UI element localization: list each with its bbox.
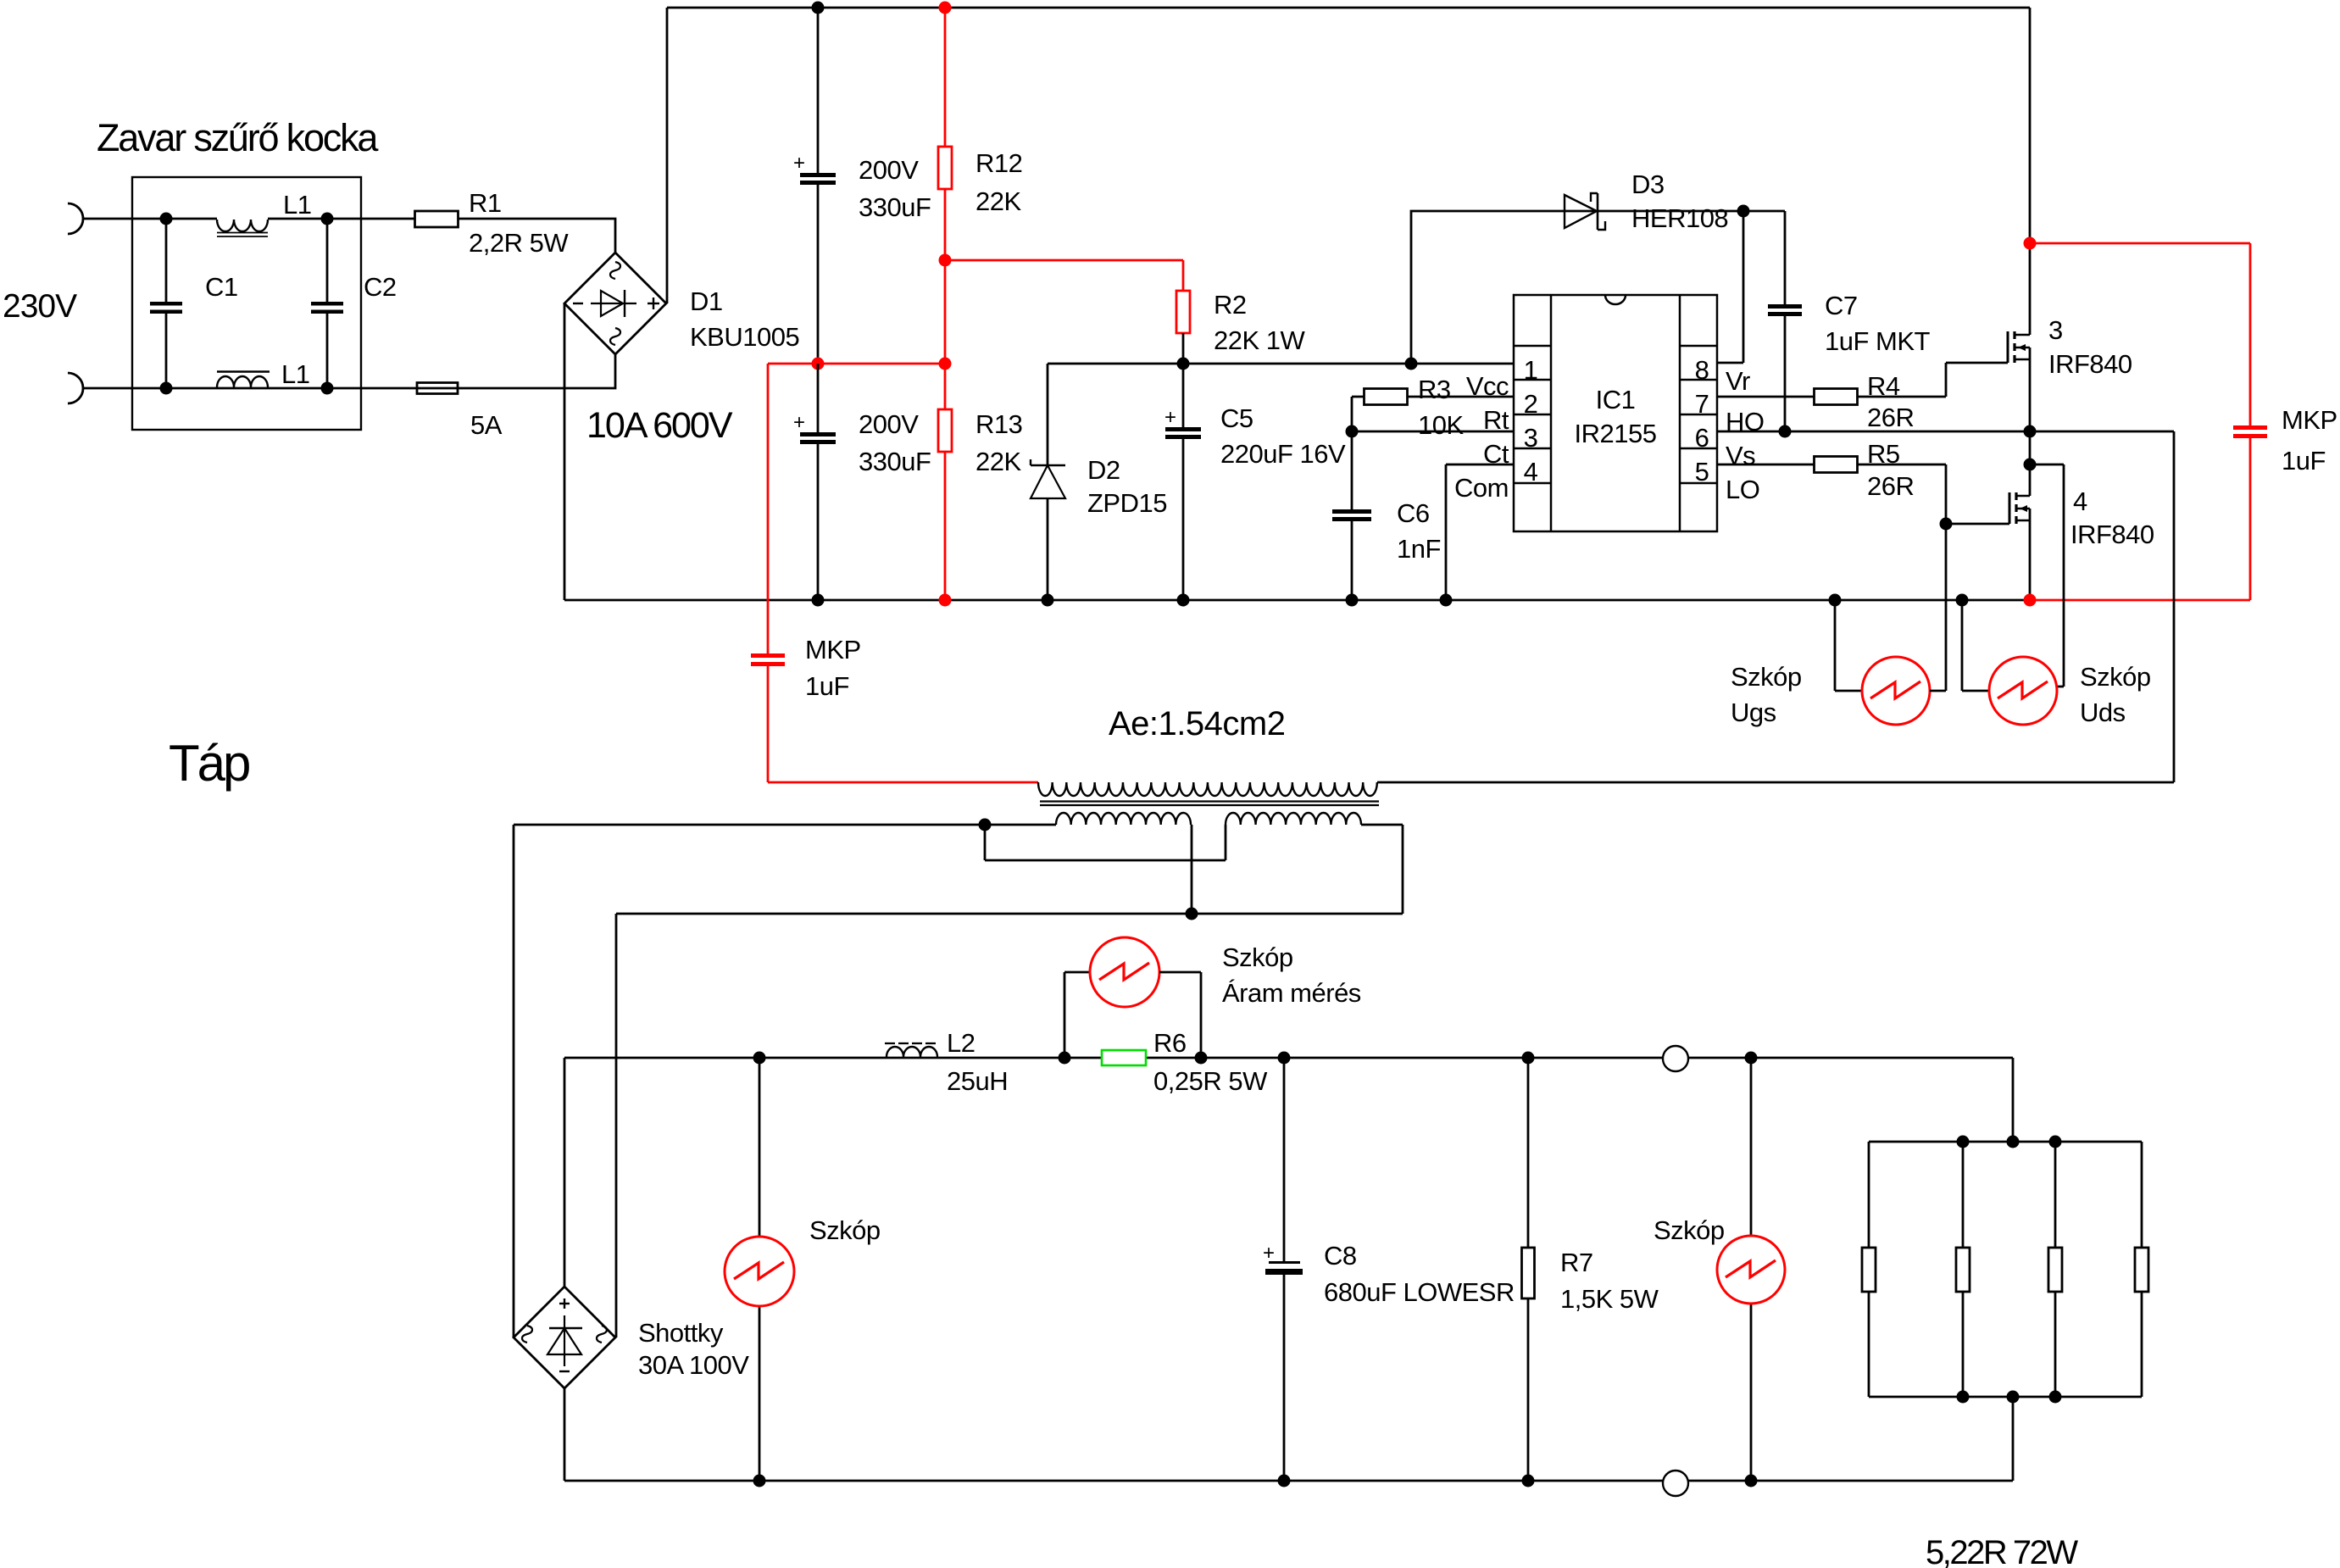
svg-text:L1: L1 [283,190,311,220]
node C8 top [1278,1052,1291,1065]
svg-text:10K: 10K [1418,410,1464,440]
svg-text:R4: R4 [1867,371,1900,401]
bridge rectifier Shottky [514,1287,615,1388]
scope probe Uds [1962,600,1989,691]
svg-text:R2: R2 [1214,290,1247,320]
node secondary left [979,819,992,831]
node R13 top [939,358,952,370]
wire pin3 Ct [1352,431,1514,433]
node load bottom 3 [2049,1391,2062,1404]
wire D3 branch [1411,211,1598,364]
node C6 ground [1346,594,1359,607]
svg-text:Shottky: Shottky [638,1318,724,1348]
svg-text:1nF: 1nF [1397,534,1441,564]
svg-text:680uF LOWESR: 680uF LOWESR [1324,1277,1515,1307]
node load bottom 1 [1957,1391,1970,1404]
svg-text:220uF 16V: 220uF 16V [1220,439,1346,469]
svg-text:330uF: 330uF [859,192,931,222]
svg-text:+: + [793,152,805,175]
wire output bottom rail [564,1397,2013,1481]
node Ugs probe ground [1829,594,1842,607]
svg-text:L1: L1 [281,359,309,389]
svg-text:26R: 26R [1867,403,1914,432]
connector output plus [1663,1046,1688,1071]
wire Shottky minus to output bottom [564,1388,566,1481]
svg-text:Vs: Vs [1726,441,1755,470]
node MOSFET4 drain tap [2024,459,2037,471]
node C8 bottom [1278,1475,1291,1487]
transformer core [1040,802,1379,806]
svg-text:1uF: 1uF [805,671,849,701]
node R2 C5 Vcc [1177,358,1190,370]
resistor R5 [1717,464,2009,524]
node center tap [1186,908,1198,920]
svg-text:1uF MKT: 1uF MKT [1825,326,1931,356]
wire load bottom bus [1869,1396,2142,1398]
svg-text:Szkóp: Szkóp [1222,942,1293,972]
svg-text:R13: R13 [975,409,1022,439]
svg-text:1uF: 1uF [2282,446,2326,475]
svg-text:C6: C6 [1397,498,1430,528]
svg-text:R3: R3 [1418,375,1451,404]
node R3 C6 [1346,425,1359,438]
resistor R1 [415,211,459,227]
scope probe current measure [1064,972,1090,1058]
transformer secondary winding left [1056,813,1191,825]
svg-text:Com: Com [1454,473,1509,503]
svg-text:D1: D1 [690,286,723,316]
node load top 2 [2007,1136,2020,1148]
capacitor 330uF bottom [817,364,820,432]
capacitor C1 [165,219,168,302]
node R7 top [1522,1052,1535,1065]
node C5 ground [1177,594,1190,607]
svg-text:Uds: Uds [2080,698,2126,727]
svg-text:1: 1 [1524,355,1538,385]
connector input bottom [68,373,83,403]
svg-text:R12: R12 [975,148,1022,178]
svg-text:25uH: 25uH [947,1066,1008,1096]
svg-text:Táp: Táp [169,735,249,792]
node MOSFET3 drain red tap [2024,237,2037,250]
svg-text:ZPD15: ZPD15 [1087,488,1167,518]
svg-text:230V: 230V [3,288,77,325]
wire output top [564,1058,2013,1142]
scope probe Ugs [1835,600,1862,691]
node R13 ground [939,594,952,607]
svg-text:C5: C5 [1220,403,1253,433]
svg-text:2,2R 5W: 2,2R 5W [469,228,569,258]
svg-text:Szkóp: Szkóp [1654,1215,1725,1245]
svg-text:D2: D2 [1087,455,1120,485]
svg-text:Zavar szűrő kocka: Zavar szűrő kocka [97,116,379,159]
capacitor MKP 1uF right [2233,425,2267,430]
svg-text:LO: LO [1726,475,1759,504]
svg-text:Szkóp: Szkóp [1731,662,1802,692]
node probe top [753,1052,766,1065]
node Uds probe ground [1956,594,1969,607]
svg-text:5A: 5A [470,410,503,440]
svg-text:C1: C1 [205,272,238,302]
svg-text:+: + [1263,1242,1275,1265]
svg-text:C2: C2 [364,272,397,302]
svg-text:3: 3 [2048,315,2063,345]
svg-text:3: 3 [1524,423,1538,453]
svg-text:KBU1005: KBU1005 [690,322,799,352]
node input bottom C2 [321,382,334,395]
wire pin4 Com [1446,464,1514,600]
connector output minus [1663,1471,1688,1496]
svg-text:Szkóp: Szkóp [809,1215,881,1245]
resistor R4 [1717,363,2008,397]
svg-text:D3: D3 [1631,170,1665,199]
node top rail R12 [939,2,952,14]
svg-text:+: + [793,411,805,434]
wire secondary interconnect [985,825,1226,860]
node probe bottom [753,1475,766,1487]
wire pin6 Vs to primary [1377,431,2174,782]
transistor Q4 IRF840 [2029,431,2032,496]
scope probe output [1750,1058,1753,1481]
svg-text:22K: 22K [975,186,1021,216]
svg-text:+: + [1164,406,1176,429]
wire center tap rail [616,914,1403,1337]
transformer secondary winding right [1226,813,1361,825]
svg-text:C7: C7 [1825,291,1858,320]
node scope output top [1745,1052,1758,1065]
svg-text:R6: R6 [1153,1028,1187,1058]
node R7 bottom [1522,1475,1535,1487]
resistor R6 [1102,1050,1146,1065]
wire secondary top left [514,825,1056,1337]
wire D1 plus to top rail [666,8,669,303]
node input top C2 [321,213,334,225]
svg-text:7: 7 [1695,389,1709,419]
svg-text:200V: 200V [859,409,919,439]
node caps midpoint [812,358,825,370]
wire ground rail [564,599,2031,602]
svg-text:IR2155: IR2155 [1575,419,1657,448]
resistor R3 [1352,397,1514,431]
capacitor C2 [326,219,329,302]
wire secondary center tap [1191,825,1193,914]
wire ground rail red segment [2031,599,2250,602]
svg-text:Vr: Vr [1726,366,1750,396]
svg-text:IRF840: IRF840 [2070,520,2154,549]
filter box [132,177,361,430]
wire R12 to R13 [944,260,947,364]
svg-text:2: 2 [1524,389,1538,419]
capacitor C6 [1351,431,1353,600]
svg-text:5,22R 72W: 5,22R 72W [1926,1534,2078,1568]
svg-text:1,5K 5W: 1,5K 5W [1560,1284,1659,1314]
resistor R12 [944,8,947,147]
node scope output bottom [1745,1475,1758,1487]
svg-text:C8: C8 [1324,1241,1357,1271]
wire red to MKP right [2030,243,2250,425]
svg-text:IC1: IC1 [1596,385,1636,414]
node load top 1 [1957,1136,1970,1148]
node load top 3 [2049,1136,2062,1148]
load resistor 3 [2054,1142,2057,1397]
load resistor 1 [1868,1142,1870,1397]
wire D3 cathode node [1598,211,1785,363]
transistor Q3 IRF840 [2007,331,2009,363]
svg-text:26R: 26R [1867,471,1914,501]
capacitor 330uF top [817,8,820,173]
node R5 gate junction [1940,518,1953,531]
svg-text:5: 5 [1695,457,1709,487]
svg-text:Szkóp: Szkóp [2080,662,2151,692]
node R6 left [1059,1052,1071,1065]
svg-text:22K 1W: 22K 1W [1214,325,1306,355]
load resistor 4 [2141,1142,2143,1397]
load resistor 2 [1962,1142,1965,1397]
node D2 ground [1042,594,1054,607]
node D3 cathode [1737,205,1750,218]
resistor R13 [944,364,947,409]
bridge rectifier D1 [564,253,666,354]
node R12 R13 junction [939,254,952,267]
wire secondary right end [1361,825,1403,914]
svg-text:0,25R 5W: 0,25R 5W [1153,1066,1268,1096]
node input bottom C1 [160,382,173,395]
svg-text:330uF: 330uF [859,447,931,476]
inductor L1 bottom [217,376,268,387]
fuse 5A [417,383,458,394]
svg-text:Áram mérés: Áram mérés [1222,978,1361,1008]
svg-text:MKP: MKP [805,635,861,664]
svg-text:MKP: MKP [2282,405,2337,435]
capacitor C7 [1784,211,1787,431]
node Com ground [1440,594,1453,607]
svg-text:8: 8 [1695,355,1709,385]
resistor R7 [1527,1058,1530,1481]
capacitor C5 [1182,364,1185,427]
wire Shottky plus to L2 wire [564,1058,566,1287]
svg-text:Ugs: Ugs [1731,698,1776,727]
wire R12 R13 junction to R2 [945,259,1183,262]
inductor L2 [887,1047,937,1057]
capacitor C8 [1283,1058,1286,1481]
IC U1 IR2155 body [1514,295,1717,531]
node Vs MOSFET junction [2024,425,2037,438]
svg-text:IRF840: IRF840 [2048,349,2132,379]
resistor R2 [1182,260,1185,291]
svg-text:Ae:1.54cm2: Ae:1.54cm2 [1109,705,1285,742]
wire load top bus [1869,1141,2142,1143]
svg-text:R5: R5 [1867,439,1900,469]
svg-text:6: 6 [1695,423,1709,453]
svg-text:30A 100V: 30A 100V [638,1350,749,1380]
node MOSFET4 source ground [2024,594,2037,607]
svg-text:HER108: HER108 [1631,203,1728,233]
wire input top [82,219,615,253]
node top rail cap [812,2,825,14]
svg-text:10A 600V: 10A 600V [586,405,733,446]
svg-text:4: 4 [1524,457,1538,487]
inductor L1 top [217,220,268,231]
svg-text:200V: 200V [859,155,919,185]
zener D2 [1047,364,1049,465]
node load bottom 2 [2007,1391,2020,1404]
connector input top [68,203,83,234]
diode D3 [1565,195,1597,228]
wire caps midpoint red [768,363,945,365]
wire top rail [667,7,2030,9]
capacitor MKP 1uF left [767,364,770,653]
svg-text:R1: R1 [469,188,502,218]
wire input bottom [82,354,615,388]
svg-text:R7: R7 [1560,1248,1593,1277]
svg-text:L2: L2 [947,1028,975,1058]
node D3 branch Vcc [1405,358,1418,370]
transformer primary winding [1038,782,1377,796]
node C7 Vs [1779,425,1792,438]
svg-text:22K: 22K [975,447,1021,476]
wire Vcc rail [1048,363,1514,365]
node 330uF bottom ground [812,594,825,607]
svg-text:4: 4 [2073,487,2087,516]
node R6 right [1195,1052,1208,1065]
node input top C1 [160,213,173,225]
scope probe Shottky [759,1058,761,1481]
wire D1 minus to ground rail [564,303,566,600]
